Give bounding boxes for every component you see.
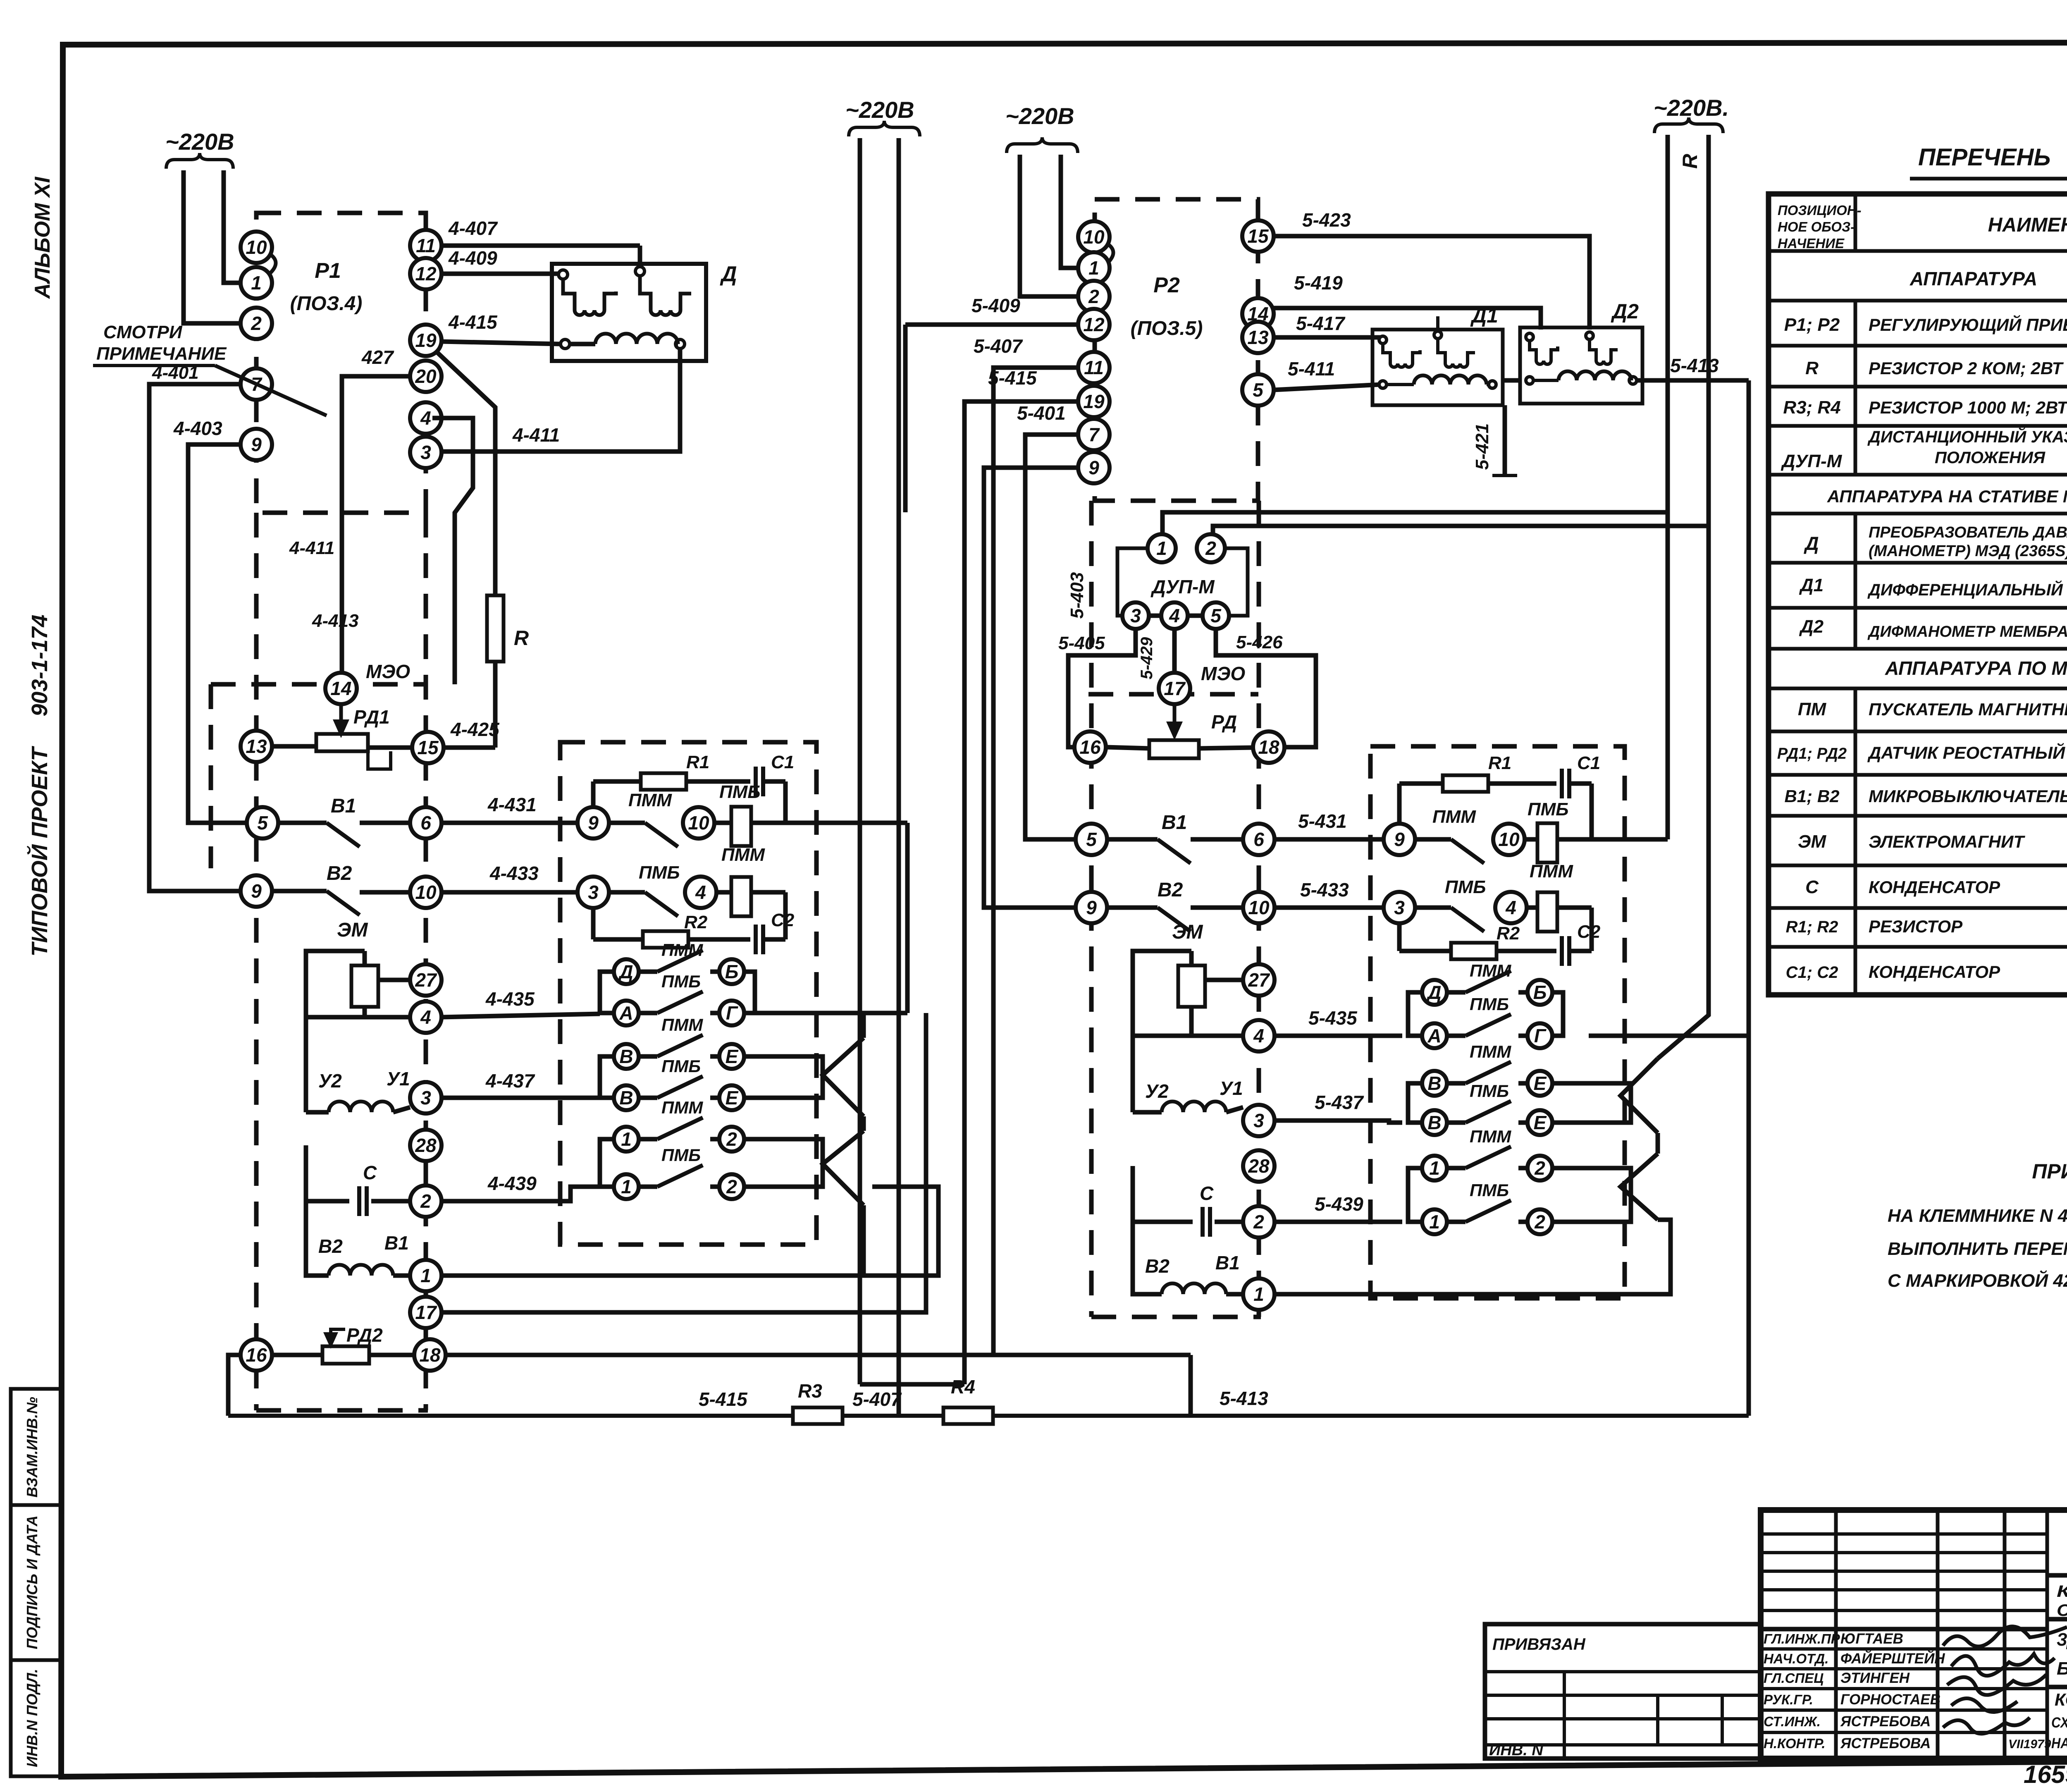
svg-text:ВЗАМ.ИНВ.№: ВЗАМ.ИНВ.№: [24, 1397, 41, 1497]
svg-text:У1: У1: [1220, 1078, 1243, 1099]
svg-text:Г: Г: [1534, 1025, 1547, 1047]
node 2: [1197, 534, 1225, 562]
svg-text:ЭМ: ЭМ: [1172, 921, 1203, 943]
svg-text:ПММ: ПММ: [1470, 1127, 1511, 1146]
svg-text:В2: В2: [327, 863, 352, 884]
node 10: [241, 232, 272, 263]
wire 427 loop: [342, 376, 410, 678]
bracket B-G P2: [1552, 992, 1563, 1036]
svg-text:15: 15: [1247, 225, 1269, 247]
right bus vertical: [1747, 380, 1751, 1416]
center feed wire A: [858, 138, 862, 823]
MEO mechanism dashed box P1: [211, 682, 426, 687]
svg-text:ЭМ: ЭМ: [1798, 831, 1827, 852]
svg-text:ГЛ.СПЕЦ: ГЛ.СПЕЦ: [1764, 1670, 1824, 1686]
node 28: [1243, 1150, 1275, 1182]
svg-text:18: 18: [1258, 736, 1279, 758]
svg-text:5-403: 5-403: [1067, 572, 1087, 619]
EM to 27: [378, 978, 410, 982]
wire to C: [306, 1145, 349, 1201]
svg-text:~220В: ~220В: [845, 97, 914, 123]
bracket 1-1 P2: [1408, 1168, 1422, 1222]
svg-text:ПМ: ПМ: [1798, 699, 1827, 719]
svg-text:5-429: 5-429: [1138, 637, 1156, 679]
wire 5-415 down: [964, 401, 1078, 1384]
node 4: [410, 1001, 442, 1033]
svg-text:ПММ: ПММ: [661, 1098, 703, 1117]
svg-text:1: 1: [420, 1265, 431, 1286]
svg-text:Е: Е: [1534, 1073, 1547, 1094]
bottom bus wires: [228, 1414, 793, 1418]
svg-text:Р1: Р1: [315, 259, 341, 283]
svg-text:Е: Е: [726, 1046, 739, 1067]
svg-text:17: 17: [1164, 678, 1186, 699]
svg-text:Д1: Д1: [1799, 575, 1824, 595]
node Б: [719, 959, 744, 984]
G row long exit: [1589, 1034, 1749, 1038]
svg-text:ДИСТАНЦИОННЫЙ УКАЗАТЕЛЬ: ДИСТАНЦИОННЫЙ УКАЗАТЕЛЬ: [1867, 427, 2067, 446]
svg-text:1: 1: [621, 1128, 632, 1150]
wire feed to P2-1: [1061, 155, 1078, 268]
svg-text:Г: Г: [726, 1002, 738, 1024]
node 27: [1243, 964, 1275, 996]
resistor R4: [943, 1407, 993, 1424]
svg-text:9: 9: [1088, 457, 1099, 478]
svg-text:2: 2: [1088, 286, 1099, 307]
wire 5-405: [1068, 629, 1136, 747]
svg-text:РУК.ГР.: РУК.ГР.: [1764, 1692, 1813, 1707]
svg-text:R: R: [1678, 154, 1702, 169]
svg-text:R3: R3: [798, 1380, 822, 1402]
D coils: [559, 270, 568, 279]
svg-text:R2: R2: [684, 912, 708, 932]
svg-text:ЗДАНИЕ ИЗ СБОРНЫХ ЖЕЛЕЗО-: ЗДАНИЕ ИЗ СБОРНЫХ ЖЕЛЕЗО-: [2057, 1630, 2067, 1650]
node 18: [1253, 731, 1284, 763]
svg-text:9: 9: [251, 434, 262, 455]
wire 4-433: [442, 890, 578, 895]
wire from 4: [432, 418, 473, 684]
wire 5-429: [1172, 629, 1177, 673]
center feed elbow: [860, 1382, 964, 1387]
svg-text:Д: Д: [1803, 533, 1819, 554]
svg-text:1: 1: [1429, 1157, 1440, 1179]
svg-text:20: 20: [415, 366, 437, 387]
chevron A: [823, 1038, 864, 1116]
svg-text:Д2: Д2: [1611, 300, 1639, 323]
svg-text:ПММ: ПММ: [661, 940, 703, 960]
svg-text:2: 2: [1534, 1211, 1545, 1233]
svg-text:Е: Е: [1534, 1112, 1547, 1133]
wire 5-423: [1274, 236, 1590, 330]
svg-text:Р2: Р2: [1153, 273, 1180, 297]
wire 5-407 down: [993, 368, 1078, 1355]
svg-text:Д1: Д1: [1470, 304, 1498, 327]
svg-text:28: 28: [1248, 1155, 1270, 1177]
node 9: [1384, 824, 1415, 855]
svg-text:ЯСТРЕБОВА: ЯСТРЕБОВА: [1840, 1735, 1931, 1751]
svg-text:~220В: ~220В: [1005, 103, 1074, 129]
tyagomer D1 box: [1372, 330, 1503, 405]
svg-text:4-435: 4-435: [485, 988, 535, 1010]
svg-text:1: 1: [1253, 1283, 1264, 1305]
node 7: [241, 368, 272, 400]
node 28: [410, 1130, 442, 1161]
svg-text:1: 1: [621, 1176, 632, 1197]
node 3: [1384, 892, 1415, 923]
R2 C2 branch P2: [1397, 923, 1402, 951]
link D1-D2: [1503, 378, 1520, 383]
node 2: [1528, 1209, 1552, 1234]
node В: [614, 1085, 639, 1110]
MEO shaft arrow: [339, 704, 343, 734]
node 6: [410, 807, 442, 839]
node 15: [412, 732, 444, 763]
svg-text:5-419: 5-419: [1294, 272, 1343, 294]
svg-text:2: 2: [1205, 538, 1216, 559]
svg-text:4: 4: [420, 407, 431, 429]
svg-text:НАИМЕНОВАНИЕ: НАИМЕНОВАНИЕ: [1988, 214, 2067, 236]
wire 5-437: [1275, 1121, 1402, 1123]
node 4: [410, 402, 442, 434]
node 2: [1243, 1206, 1275, 1238]
svg-text:ФАЙЕРШТЕЙН: ФАЙЕРШТЕЙН: [1840, 1650, 1945, 1667]
bracket B-G: [744, 972, 755, 1013]
svg-text:ЮГТАЕВ: ЮГТАЕВ: [1840, 1631, 1903, 1647]
wire 5-426: [1216, 629, 1316, 747]
bracket E-E P2: [1552, 1083, 1631, 1123]
svg-text:ПММ: ПММ: [1470, 961, 1511, 980]
wire 5-419: [1274, 308, 1541, 330]
node 15: [1242, 220, 1274, 252]
svg-text:ПРЕОБРАЗОВАТЕЛЬ ДАВЛЕНИЯ: ПРЕОБРАЗОВАТЕЛЬ ДАВЛЕНИЯ: [1869, 524, 2067, 541]
wire feed to P2-2: [1020, 155, 1078, 296]
node 7: [1078, 419, 1110, 450]
transducer D box: [552, 264, 706, 361]
difmanometer D2 box: [1520, 327, 1642, 404]
node 2: [1078, 281, 1110, 312]
node 1: [614, 1174, 639, 1199]
resistor R1 P2: [1443, 775, 1488, 792]
svg-text:ПМБ: ПМБ: [661, 1056, 701, 1076]
svg-text:16591-11: 16591-11: [2024, 1761, 2067, 1788]
row exit right P2: [1592, 837, 1668, 842]
node 2: [241, 308, 272, 339]
svg-text:ЭТИНГЕН: ЭТИНГЕН: [1840, 1670, 1910, 1686]
wire 5-421: [1503, 405, 1507, 475]
svg-text:10: 10: [688, 812, 709, 834]
svg-text:С: С: [363, 1162, 377, 1183]
svg-text:9: 9: [1394, 829, 1405, 850]
wire feed to P1-2: [184, 170, 250, 323]
svg-text:R1: R1: [1488, 753, 1511, 773]
svg-text:9: 9: [588, 812, 599, 834]
svg-text:R1; R2: R1; R2: [1786, 918, 1838, 936]
svg-text:ЯСТРЕБОВА: ЯСТРЕБОВА: [1840, 1713, 1931, 1730]
svg-text:4-439: 4-439: [487, 1173, 537, 1194]
node 9: [241, 429, 272, 460]
svg-text:10: 10: [1248, 897, 1270, 918]
svg-text:2: 2: [251, 313, 262, 334]
node 17: [410, 1297, 442, 1328]
signatures: [1943, 1627, 2067, 1646]
node 20: [410, 361, 442, 392]
svg-text:5-417: 5-417: [1296, 313, 1346, 334]
svg-text:РД1: РД1: [353, 706, 390, 728]
node 19: [410, 325, 442, 356]
node 5: [247, 807, 278, 839]
svg-text:17: 17: [415, 1302, 437, 1323]
svg-text:4-431: 4-431: [487, 794, 537, 815]
right feed A: [1666, 135, 1670, 839]
wire 19 to R: [435, 351, 495, 595]
node 9: [1078, 452, 1110, 483]
svg-text:4-433: 4-433: [489, 863, 539, 884]
G row riser: [905, 823, 910, 1013]
svg-text:4-413: 4-413: [312, 611, 359, 631]
capacitor C1 P2: [1562, 769, 1569, 798]
svg-text:4-411: 4-411: [289, 538, 334, 558]
node 2: [719, 1127, 744, 1152]
node 10: [1493, 824, 1525, 855]
node 1: [1148, 534, 1176, 562]
node 1: [614, 1127, 639, 1152]
node 10: [683, 807, 714, 839]
pointer line: [215, 366, 327, 416]
svg-text:4: 4: [1253, 1025, 1264, 1047]
node 10: [1243, 892, 1275, 923]
svg-text:В2: В2: [1158, 879, 1183, 901]
svg-text:11: 11: [1084, 357, 1104, 378]
svg-text:ПМБ: ПМБ: [1445, 877, 1486, 897]
svg-text:3: 3: [420, 442, 431, 463]
svg-text:5-413: 5-413: [1670, 355, 1719, 376]
svg-text:ДИФФЕРЕНЦИАЛЬНЫЙ ТЯГОМЕР ДТ-2: ДИФФЕРЕНЦИАЛЬНЫЙ ТЯГОМЕР ДТ-2: [1867, 580, 2067, 599]
svg-text:2: 2: [726, 1176, 737, 1197]
svg-text:27: 27: [415, 969, 437, 991]
node Д: [614, 959, 639, 984]
bracket V-V: [600, 1056, 614, 1098]
wire 5-411: [1274, 385, 1381, 390]
svg-text:У1: У1: [387, 1068, 410, 1090]
svg-text:Е: Е: [726, 1087, 739, 1109]
svg-text:ПОЛОЖЕНИЯ: ПОЛОЖЕНИЯ: [1935, 449, 2046, 467]
svg-text:(МАНОМЕТР) МЭД (2365S): (МАНОМЕТР) МЭД (2365S): [1869, 542, 2067, 560]
svg-text:ВЫПОЛНИТЬ ПЕРЕМЫЧКУ П: ВЫПОЛНИТЬ ПЕРЕМЫЧКУ ПРОВОДОВ: [1888, 1239, 2067, 1259]
wire feed to P1-1: [224, 170, 250, 283]
svg-text:9: 9: [251, 880, 262, 902]
node 4: [1495, 892, 1527, 923]
svg-text:В2: В2: [1145, 1255, 1170, 1277]
svg-text:ПММ: ПММ: [721, 845, 765, 865]
margin boxes bottom left: [11, 1389, 61, 1505]
node 3: [1122, 602, 1149, 629]
node 5: [1242, 374, 1274, 406]
wire 5-401 to B1: [1025, 435, 1078, 839]
EM left loop: [306, 951, 365, 1112]
svg-text:R: R: [1805, 358, 1819, 378]
bracket D-A: [600, 972, 614, 1013]
wire 5-409: [905, 323, 1078, 327]
svg-text:МЭО: МЭО: [366, 661, 410, 682]
wire 4-411 run: [441, 348, 680, 452]
center feed wire A lower: [858, 823, 862, 1384]
bracket E-E: [744, 1056, 823, 1098]
svg-text:16: 16: [1079, 736, 1101, 758]
wire from 1 to contact box: [442, 1187, 938, 1276]
svg-text:13: 13: [1247, 327, 1269, 348]
svg-text:4: 4: [695, 882, 706, 903]
wire 4-407 run: [442, 244, 640, 248]
svg-text:5-409: 5-409: [971, 295, 1020, 316]
wire 4-415 to D: [442, 342, 561, 344]
chevron A P2: [1621, 1058, 1658, 1133]
chevron B: [823, 1131, 864, 1205]
node Г: [719, 1001, 744, 1025]
svg-text:5-415: 5-415: [988, 367, 1037, 389]
svg-text:ГЛ.ИНЖ.ПР: ГЛ.ИНЖ.ПР: [1764, 1631, 1840, 1646]
bracket 2-2 P2: [1552, 1168, 1631, 1222]
G row exit: [755, 1011, 907, 1015]
svg-text:ПММ: ПММ: [1432, 807, 1476, 827]
bracket V-V P2: [1408, 1083, 1422, 1123]
svg-text:15: 15: [417, 737, 439, 758]
svg-text:6: 6: [1253, 829, 1264, 850]
node Б: [1528, 980, 1552, 1005]
node Г: [1528, 1023, 1552, 1048]
svg-text:ПМБ: ПМБ: [1470, 1180, 1509, 1200]
svg-text:2: 2: [1534, 1157, 1545, 1179]
svg-text:5-433: 5-433: [1300, 879, 1349, 901]
svg-text:АППАРАТУРА: АППАРАТУРА: [1909, 268, 2037, 289]
svg-text:ПРИМЕЧАНИЕ: ПРИМЕЧАНИЕ: [2032, 1160, 2067, 1183]
svg-text:Д: Д: [1426, 982, 1441, 1003]
node 9: [578, 807, 609, 839]
svg-text:5: 5: [1086, 829, 1097, 850]
svg-text:РД: РД: [1211, 711, 1237, 733]
svg-text:ПУСКАТЕЛЬ МАГНИТНЫЙ ПМЕ-083~22: ПУСКАТЕЛЬ МАГНИТНЫЙ ПМЕ-083~220В: [1869, 699, 2067, 719]
svg-text:~220В.: ~220В.: [1654, 95, 1729, 121]
svg-text:ПМБ: ПМБ: [661, 972, 701, 991]
svg-text:4-437: 4-437: [485, 1070, 535, 1092]
svg-text:Д: Д: [720, 262, 737, 286]
svg-text:КОНДЕНСАТОР: КОНДЕНСАТОР: [1869, 962, 2000, 982]
svg-text:19: 19: [1083, 391, 1105, 412]
wire drop to D box: [638, 246, 642, 265]
svg-text:5: 5: [257, 812, 268, 834]
wire 15 to R: [444, 745, 495, 750]
svg-text:5-423: 5-423: [1302, 209, 1351, 231]
svg-text:В1; В2: В1; В2: [1784, 786, 1839, 806]
svg-text:АППАРАТУРА НА СТАТИВЕ: АППАРАТУРА НА СТАТИВЕ МЕСТНЫХ ПРИБОРОВ: [1827, 487, 2067, 506]
svg-text:1: 1: [251, 272, 262, 294]
node 13: [241, 731, 272, 762]
wire from 17: [442, 1013, 926, 1312]
svg-text:У2: У2: [318, 1070, 342, 1092]
node 3: [1243, 1105, 1275, 1136]
svg-text:5-413: 5-413: [1220, 1388, 1268, 1409]
svg-text:ПММ: ПММ: [661, 1015, 703, 1035]
title block outer: [1761, 1510, 2067, 1759]
svg-text:В: В: [1427, 1112, 1441, 1133]
wire from 1 P2: [1275, 1220, 1671, 1294]
svg-text:ПРИВЯЗАН: ПРИВЯЗАН: [1492, 1635, 1586, 1653]
svg-text:2: 2: [1253, 1211, 1264, 1233]
svg-text:ПОЗИЦИОН-: ПОЗИЦИОН-: [1778, 203, 1862, 218]
svg-text:РЕЗИСТОР: РЕЗИСТОР: [1869, 917, 1963, 936]
svg-text:R2: R2: [1497, 923, 1520, 944]
svg-text:2: 2: [726, 1128, 737, 1150]
svg-text:РЕГУЛИРУЮЩИЙ ПРИБОР Р25.1: РЕГУЛИРУЮЩИЙ ПРИБОР Р25.1 ~220В: [1869, 314, 2067, 335]
node 6: [1243, 824, 1275, 855]
svg-text:ПМБ: ПМБ: [661, 1145, 701, 1165]
svg-text:427: 427: [361, 346, 394, 368]
svg-text:СТ.ИНЖ.: СТ.ИНЖ.: [1764, 1714, 1821, 1729]
svg-text:ПМБ: ПМБ: [1470, 1081, 1509, 1101]
svg-text:ПРИМЕЧАНИЕ: ПРИМЕЧАНИЕ: [96, 344, 227, 364]
privyazan strip: [1485, 1624, 1761, 1759]
svg-text:НА КЛЕММНИКЕ N 4 К ЩИТ: НА КЛЕММНИКЕ N 4 К ЩИТА Щ-К2 ( Щ-ДЕ): [1888, 1206, 2067, 1226]
PMM coil: [731, 877, 751, 916]
node 10: [410, 877, 442, 908]
svg-text:НАЯ РЕГУЛЯТОРОВ ТОПЛИВА И ВОЗД: НАЯ РЕГУЛЯТОРОВ ТОПЛИВА И ВОЗДУХА.: [2051, 1735, 2067, 1751]
svg-text:5-421: 5-421: [1472, 423, 1492, 470]
svg-text:R1: R1: [686, 752, 709, 772]
node 5: [1203, 602, 1229, 629]
R1 C1 branch: [591, 781, 596, 807]
svg-text:5-405: 5-405: [1058, 633, 1105, 653]
svg-text:5: 5: [1253, 379, 1264, 401]
svg-text:(ПОЗ.5): (ПОЗ.5): [1131, 318, 1203, 339]
svg-text:ДУП-М: ДУП-М: [1781, 451, 1843, 471]
node 1: [1078, 252, 1110, 284]
svg-text:18: 18: [419, 1344, 441, 1366]
svg-text:6: 6: [420, 812, 431, 834]
svg-text:КОТЕЛ ДЕ-10.14 ГМ№1 (2,3,4) .: КОТЕЛ ДЕ-10.14 ГМ№1 (2,3,4) .: [2055, 1690, 2067, 1709]
svg-text:ПМБ: ПМБ: [639, 863, 680, 883]
svg-text:В: В: [619, 1087, 633, 1109]
wire to B2: [984, 468, 1078, 908]
svg-text:28: 28: [415, 1135, 437, 1156]
node 5: [1076, 824, 1107, 855]
wire 5-435 into contacts: [1275, 1034, 1402, 1038]
svg-text:БЕТОННЫХ КОНСТРУКЦИЙ: БЕТОННЫХ КОНСТРУКЦИЙ: [2057, 1658, 2067, 1679]
node 1: [1243, 1278, 1275, 1310]
svg-text:ЭМ: ЭМ: [337, 919, 368, 941]
node 1: [1422, 1209, 1447, 1234]
svg-text:НАЧЕНИЕ: НАЧЕНИЕ: [1778, 236, 1845, 251]
node 19: [1078, 386, 1110, 417]
svg-text:VII1979: VII1979: [2008, 1737, 2051, 1751]
svg-text:5-439: 5-439: [1315, 1193, 1363, 1215]
svg-text:ИНВ. N: ИНВ. N: [1489, 1742, 1544, 1759]
node 16: [241, 1339, 272, 1371]
node 11: [410, 230, 442, 261]
svg-text:СИСТЕМА ТЕПЛОСНАБЖЕНИЯ ОТКР: СИСТЕМА ТЕПЛОСНАБЖЕНИЯ ОТКРЫТАЯ.: [2057, 1601, 2067, 1620]
PM contact block P2 dashed box: [1370, 746, 1625, 1298]
wire 5-409 drop: [903, 325, 908, 512]
svg-text:19: 19: [415, 330, 437, 351]
svg-text:10: 10: [246, 237, 267, 258]
svg-text:3: 3: [1253, 1110, 1264, 1131]
svg-text:4-407: 4-407: [448, 217, 498, 239]
svg-text:ПММ: ПММ: [1530, 861, 1573, 882]
bracket D-A P2: [1408, 992, 1422, 1036]
node 3: [410, 437, 442, 468]
node 13: [1242, 322, 1274, 353]
PMM coil P2: [1537, 892, 1557, 932]
svg-text:13: 13: [246, 736, 267, 757]
svg-text:У2: У2: [1145, 1080, 1169, 1102]
